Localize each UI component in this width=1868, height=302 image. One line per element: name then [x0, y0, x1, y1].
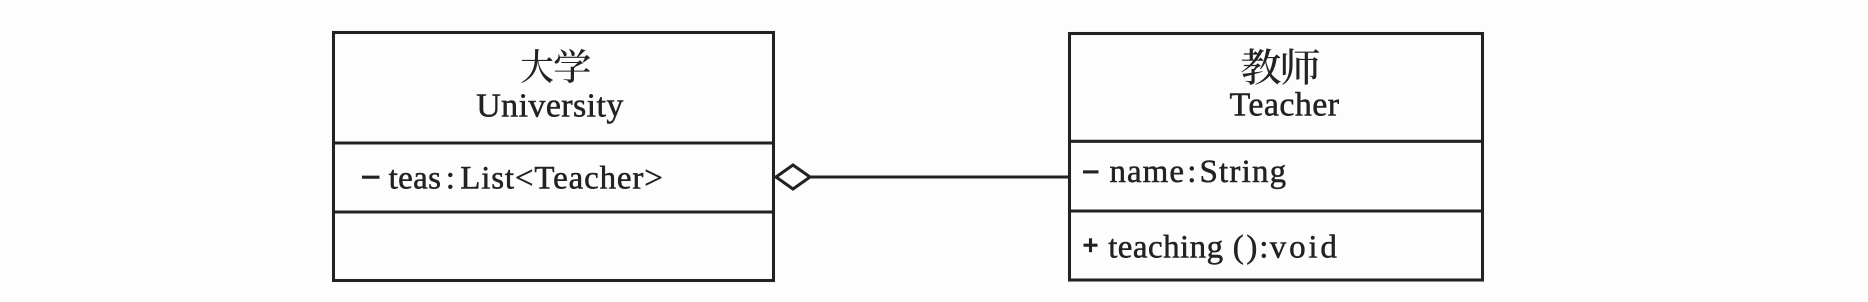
- svg-text:University: University: [476, 87, 624, 124]
- svg-text::: :: [1259, 230, 1269, 266]
- Teacher title/attribute separator: [1069, 140, 1482, 143]
- Teacher attribute/method separator: [1069, 209, 1482, 212]
- svg-text:name: name: [1110, 154, 1185, 190]
- svg-text:String: String: [1200, 154, 1288, 190]
- title char 大: [522, 49, 553, 83]
- attribute minus sign (University): [362, 176, 380, 179]
- svg-text:teas: teas: [389, 160, 442, 196]
- svg-text:Teacher: Teacher: [1230, 87, 1340, 124]
- title char 师: [1282, 48, 1319, 84]
- wire connector University-Teacher: [808, 175, 1069, 178]
- aggregation diamond: [776, 165, 810, 189]
- method plus sign horizontal: [1084, 244, 1098, 247]
- svg-text:teaching: teaching: [1108, 230, 1223, 266]
- svg-text::: :: [1187, 154, 1197, 190]
- University attribute/method separator: [333, 210, 774, 213]
- svg-text:List<Teacher>: List<Teacher>: [460, 160, 664, 196]
- University title/attribute separator: [333, 141, 774, 144]
- class box University: [334, 33, 774, 281]
- attribute minus sign (Teacher): [1083, 170, 1099, 173]
- method plus sign vertical: [1089, 238, 1092, 252]
- title char 教: [1241, 48, 1280, 84]
- svg-text:(): (): [1233, 230, 1260, 266]
- svg-text::: :: [446, 160, 456, 196]
- class box Teacher: [1070, 34, 1483, 281]
- title char 学: [555, 49, 591, 83]
- svg-text:void: void: [1270, 230, 1340, 266]
